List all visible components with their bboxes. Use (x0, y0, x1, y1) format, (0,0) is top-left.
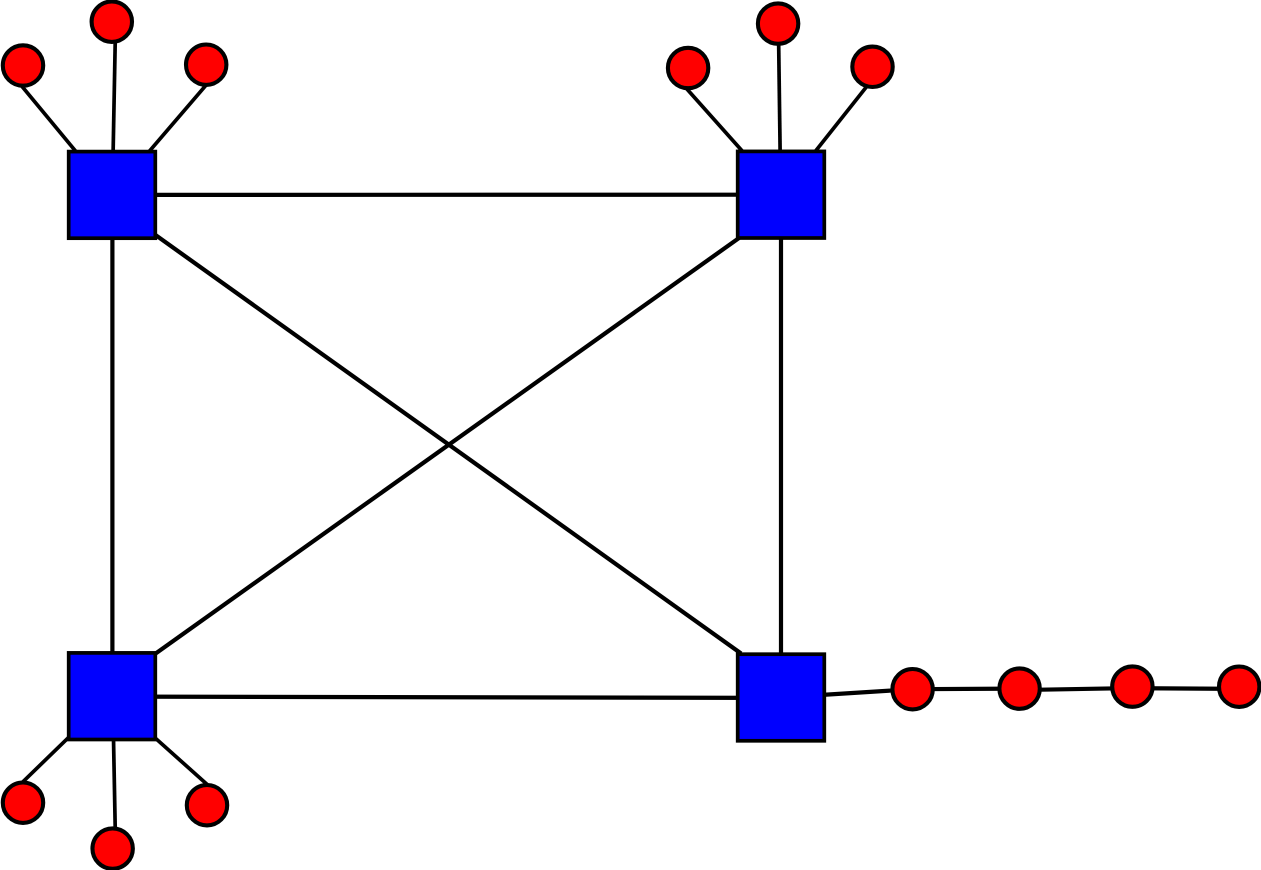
leaf circle TL-right (186, 44, 226, 84)
leaf circle BL-bottom (92, 828, 132, 868)
wire spoke TL to top leaf (112, 22, 115, 195)
wire spoke BL to left leaf (13, 696, 112, 792)
wire spoke BL to right leaf (108, 696, 217, 793)
wire edge TL-BR diagonal (corner to corner) (152, 233, 741, 654)
wire chain c2 to c3 (1020, 688, 1133, 690)
node square TL (69, 152, 156, 239)
leaf circle TR-right (852, 47, 892, 87)
chain circle c3 (1112, 666, 1152, 706)
wire chain c1 to c2 (913, 686, 1020, 691)
chain circle c1 (892, 669, 932, 709)
wire spoke TL to left leaf (12, 74, 112, 195)
node square BL (69, 653, 156, 740)
wire edge TL-BL (110, 195, 114, 696)
wire edge TR-BL diagonal (corner to corner) (152, 237, 741, 657)
wire chain BR to c1 (781, 689, 913, 697)
chain circle c2 (999, 668, 1039, 708)
wire spoke TL to right leaf (112, 73, 216, 195)
wire spoke BL to bottom leaf (113, 696, 116, 848)
leaf circle BL-right (187, 785, 227, 825)
node square TR (738, 151, 825, 238)
chain circle c4 (1219, 667, 1259, 707)
wire spoke TR to right leaf (781, 72, 879, 195)
wire spoke TR to left leaf (677, 78, 781, 195)
leaf circle BL-left (3, 783, 43, 823)
wire spoke TR to top leaf (778, 24, 780, 195)
wire edge BL-BR (112, 697, 781, 698)
leaf circle TR-left (668, 48, 708, 88)
wire edge TR-BR (779, 195, 783, 698)
leaf circle TL-left (3, 45, 43, 85)
node square BR (738, 654, 825, 741)
leaf circle TL-top (92, 2, 132, 42)
wire edge TL-TR (112, 193, 781, 197)
leaf circle TR-top (758, 3, 798, 43)
wire chain c3 to c4 (1132, 686, 1239, 691)
